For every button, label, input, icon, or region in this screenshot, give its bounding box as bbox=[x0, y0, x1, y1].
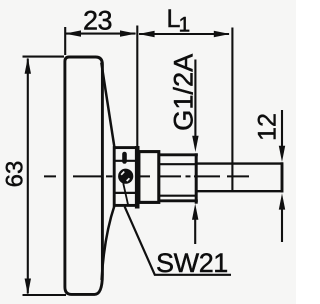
arrowhead 63 up bbox=[25, 58, 31, 74]
extension line case front (23 dim left) bbox=[64, 27, 66, 55]
leader line G1/2A upper bbox=[194, 60, 196, 141]
arrowhead L1 left bbox=[138, 31, 154, 37]
svg-text:23: 23 bbox=[83, 5, 112, 35]
boss inner line upper bbox=[113, 160, 137, 162]
svg-text:SW21: SW21 bbox=[156, 248, 228, 278]
dimension line 23 bbox=[66, 33, 136, 35]
svg-text:63: 63 bbox=[1, 161, 28, 188]
arrowhead G1/2A down bbox=[192, 136, 198, 152]
boss lower diagonal detail bbox=[123, 183, 128, 205]
arrowhead 12 up bbox=[279, 193, 285, 209]
dimension line 12 upper bbox=[281, 110, 283, 150]
screw slot glint lower bbox=[127, 178, 130, 181]
dimension line 63 bbox=[27, 59, 29, 294]
stem tube bottom edge bbox=[196, 190, 283, 192]
arrowhead 23 left bbox=[65, 30, 81, 36]
gauge case outline bbox=[65, 57, 103, 294]
svg-text:12: 12 bbox=[254, 113, 282, 141]
extension line 63 bottom bbox=[23, 294, 67, 296]
leader line SW21 bbox=[125, 207, 231, 275]
stem connection boss outline bbox=[114, 148, 137, 206]
boss pin stub bbox=[122, 154, 127, 162]
screw head (filled) on boss bbox=[118, 169, 133, 184]
arrowhead L1 right bbox=[214, 31, 230, 37]
stem tip end face bbox=[281, 162, 284, 192]
thread end face bbox=[195, 153, 198, 203]
leader line G1/2A lower bbox=[194, 214, 196, 244]
horizontal centerline dashes bbox=[44, 175, 249, 177]
extension line flange face (23/L1 shared) bbox=[136, 26, 138, 147]
arrowhead G1/2A up bbox=[192, 204, 198, 220]
svg-text:1: 1 bbox=[179, 14, 191, 37]
case back upper taper line bbox=[101, 63, 114, 149]
boss inner line lower bbox=[113, 192, 137, 194]
screw slot glint upper bbox=[121, 172, 124, 175]
flange face thick line bbox=[135, 146, 140, 209]
thread root line lower bbox=[160, 195, 196, 197]
dimension line L1 bbox=[139, 33, 229, 35]
arrowhead 63 down bbox=[25, 279, 31, 295]
hex nut SW21 body bbox=[139, 152, 159, 203]
case back lower taper line bbox=[102, 206, 115, 281]
thread root line upper bbox=[160, 163, 196, 165]
thread G1/2A top crest line bbox=[159, 153, 198, 156]
dimension line 12 lower bbox=[281, 204, 283, 242]
arrowhead 12 down bbox=[279, 146, 285, 162]
thread G1/2A bottom crest line bbox=[159, 199, 198, 202]
arrowhead 23 right bbox=[120, 30, 136, 36]
extension line L1 right bbox=[231, 28, 233, 191]
svg-text:G1/2A: G1/2A bbox=[168, 53, 199, 131]
stem tube top edge bbox=[196, 162, 283, 164]
extension line 63 top bbox=[23, 56, 65, 58]
